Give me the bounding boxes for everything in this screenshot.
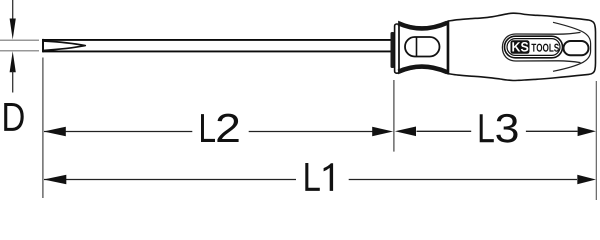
handle recessed panel <box>502 32 580 62</box>
ferrule bottom dark band <box>399 67 448 73</box>
handle inner cap line <box>553 22 591 71</box>
dimension L1 line right segment <box>349 179 577 181</box>
label 3 of L3 <box>496 114 517 143</box>
dimension L2 line right segment <box>249 131 373 133</box>
ferrule flange <box>391 32 395 68</box>
dimension D arrow up <box>10 51 16 72</box>
handle neck line <box>447 21 449 74</box>
dimension L1 arrow right <box>577 175 596 185</box>
label L of L2 <box>201 114 215 142</box>
logo outer stadium <box>505 36 563 58</box>
ferrule body <box>399 22 448 74</box>
label 2 of L2 <box>217 114 238 142</box>
dimension L2 arrow right <box>372 127 393 137</box>
logo KS text <box>512 42 528 52</box>
shaft bottom line <box>43 50 391 52</box>
shaft top line <box>43 39 391 41</box>
dimension D vertical line upper <box>12 0 14 20</box>
dimension D arrow down <box>10 19 16 40</box>
handle body <box>449 13 596 80</box>
logo inner stadium <box>507 39 560 56</box>
dimension L3 arrow right <box>578 127 596 137</box>
blade left edge <box>42 39 44 52</box>
ferrule stadium cutout <box>405 37 440 57</box>
ferrule end cap <box>395 24 400 73</box>
dimension L2 line left segment <box>44 131 192 133</box>
dimension L1 arrow left <box>44 175 67 185</box>
extension line D top <box>0 39 39 41</box>
extension line at blade tip <box>42 58 44 199</box>
extension line D bottom <box>0 50 39 52</box>
label L of L3 <box>480 114 494 142</box>
label 1 of L1 <box>324 163 334 191</box>
dimension L3 arrow left <box>395 127 416 137</box>
label L of L1 <box>305 163 320 191</box>
extension line at handle front <box>393 80 395 152</box>
logo KS block <box>511 40 530 54</box>
label D <box>4 103 24 131</box>
extension line at handle end <box>595 81 597 200</box>
blade grind taper <box>44 41 86 50</box>
ferrule top dark band <box>399 23 448 29</box>
handle oval detail <box>564 41 589 55</box>
logo TOOLS text <box>531 44 558 52</box>
dimension L1 line left segment <box>44 179 296 181</box>
dimension L2 arrow left <box>44 127 66 137</box>
dimension D vertical line lower <box>12 72 14 93</box>
dimension L3 line right segment <box>526 130 578 132</box>
ferrule cutout divider <box>416 37 418 56</box>
dimension L3 line left segment <box>417 130 472 132</box>
